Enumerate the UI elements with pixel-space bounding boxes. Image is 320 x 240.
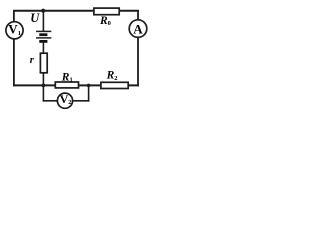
wire V2 right horizontal	[73, 100, 89, 102]
wire right upper (top wire to ammeter)	[137, 11, 139, 20]
resistor R2	[101, 82, 128, 88]
battery cell plate short thick 1	[39, 33, 47, 36]
svg-text:U: U	[30, 11, 40, 25]
svg-text:R1: R1	[61, 71, 73, 83]
voltmeter V2	[57, 92, 72, 108]
node junction top (battery tap)	[41, 9, 45, 13]
svg-text:A: A	[133, 21, 143, 36]
wire bottom	[13, 84, 139, 86]
resistor R1	[55, 82, 78, 88]
svg-text:r: r	[30, 55, 35, 66]
voltmeter V1	[6, 22, 23, 39]
svg-text:R2: R2	[106, 70, 118, 82]
wire r to V2 branch (crosses bottom wire)	[42, 73, 44, 101]
wire left lower (V1 to bottom wire)	[13, 39, 15, 86]
wire battery to resistor r	[42, 41, 44, 53]
node junction R1-R2	[87, 84, 91, 88]
svg-text:R0: R0	[99, 15, 111, 27]
battery cell plate long 1	[36, 30, 51, 32]
battery cell plate short thick 2	[39, 40, 47, 43]
battery cell plate long 2	[36, 37, 51, 39]
resistor r	[40, 53, 47, 73]
node junction r / bottom wire	[42, 84, 46, 88]
wire V2 left horizontal	[43, 100, 58, 102]
wire V2 right vertical	[88, 85, 90, 102]
wire battery top lead	[42, 11, 44, 32]
ammeter A	[129, 20, 147, 38]
resistor R0	[94, 8, 119, 15]
wire top	[13, 10, 139, 12]
wire right lower (ammeter to bottom wire)	[137, 38, 139, 87]
wire left upper (top wire to V1)	[13, 11, 15, 23]
